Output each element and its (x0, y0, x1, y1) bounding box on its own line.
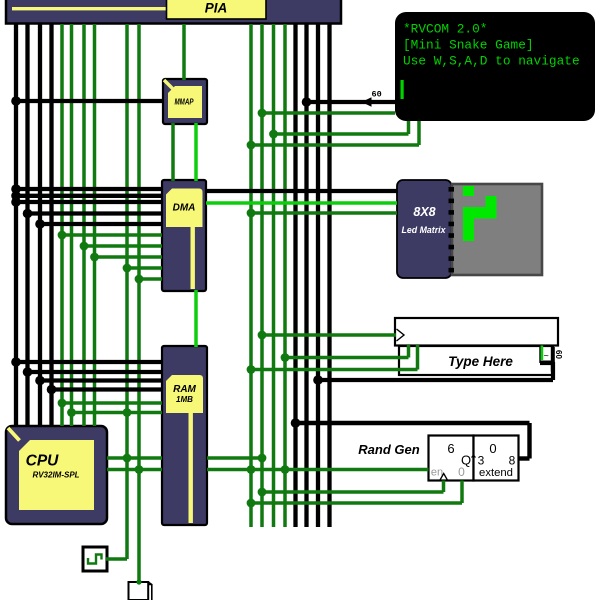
svg-text:DMA: DMA (173, 203, 196, 214)
svg-text:0: 0 (458, 465, 465, 479)
wire terminal wr horizontal (262, 111, 395, 115)
wire DMA in1 horizontal (16, 194, 162, 198)
junction DMA ctl3 (123, 264, 132, 273)
svg-text:8: 8 (509, 454, 516, 468)
wire terminal pin1 riser (407, 121, 411, 134)
svg-text:6: 6 (447, 441, 454, 456)
LED matrix lit cell snake body 3 (463, 219, 474, 242)
CPU U5 body (6, 426, 107, 524)
junction keyboard pin1 (281, 353, 290, 362)
wire keyboard pin1 riser (407, 345, 411, 358)
clock CLK1 waveform (88, 555, 102, 564)
junction keyboard clock (258, 331, 267, 340)
junction DMA in3 (23, 209, 33, 219)
wire MMAP to DMA left vertical (171, 123, 175, 181)
wire mid D1 vertical (304, 24, 308, 527)
svg-text:RV32IM-SPL: RV32IM-SPL (32, 471, 79, 480)
junction randgen reset (247, 499, 256, 508)
wire clk net vertical (125, 24, 129, 559)
terminal cursor (401, 80, 404, 99)
keyboard K2 strobe bar vertical (551, 347, 555, 372)
junction row1 end (258, 454, 267, 463)
keyboard K2 buffer box (399, 346, 553, 375)
wire DMA ctl1 horizontal (84, 244, 162, 248)
random generator clock triangle (440, 474, 447, 481)
keyboard K2 strobe bar horizontal (540, 361, 555, 366)
junction DMA ctl4 (135, 275, 144, 284)
wire RAM in1 horizontal (28, 370, 163, 374)
junction CPU-RAM row1 (123, 454, 132, 463)
junction row2 b (281, 465, 290, 474)
junction DMA in2 (11, 197, 21, 207)
junction DMA in1 (11, 191, 21, 201)
wire DMA ctl4 horizontal (139, 277, 162, 281)
svg-text:Led Matrix: Led Matrix (402, 225, 447, 235)
wire terminal pin1 horizontal (274, 132, 409, 136)
LED matrix driver right pins (449, 187, 455, 272)
wire node MMAP-in horizontal (16, 99, 163, 103)
LED matrix panel (452, 184, 542, 275)
PIA U1 body (6, 0, 341, 24)
button B1 face (129, 582, 149, 600)
wire mid C3 vertical (283, 24, 287, 527)
junction RAM ctl0 (58, 399, 67, 408)
wire randgen out horizontal (296, 421, 530, 425)
wire randgen reset riser (460, 481, 464, 504)
wire keyboard pin2 horizontal (251, 368, 418, 372)
junction DMA ctl1 (80, 242, 89, 251)
wire RAM in0 horizontal (16, 360, 162, 364)
svg-text:1MB: 1MB (176, 395, 193, 404)
MMAP U2 body (163, 79, 207, 124)
LED matrix lit cell snake head (463, 186, 474, 196)
wire DMA ctl0 horizontal (62, 233, 162, 237)
CPU U5 corner fold (8, 428, 20, 441)
wire ctl B2 vertical (82, 24, 86, 426)
RAM U4 yellow box (166, 375, 203, 413)
wire MMAP to DMA right vertical (194, 123, 198, 181)
LED matrix driver U6 body (397, 180, 452, 278)
DMA U3 body (162, 180, 206, 291)
wire DMA in2 horizontal (16, 200, 162, 204)
LED matrix lit cell snake body 1 (486, 196, 497, 219)
wire keyboard pin2 riser (416, 345, 420, 370)
tunnel arrow 60 (362, 97, 372, 107)
wire CPU-RAM row1 left horizontal (107, 456, 162, 460)
wire RAM ctl1 horizontal (72, 411, 163, 415)
wire extender out horizontal (519, 456, 530, 460)
svg-text:*RVCOM 2.0*: *RVCOM 2.0* (403, 22, 487, 37)
svg-text:60: 60 (372, 90, 382, 100)
wire mid C2 vertical (272, 24, 276, 527)
wire reset net vertical (137, 24, 141, 581)
bit extender width arrow (472, 455, 476, 462)
junction RAM ctl1b (123, 408, 132, 417)
wire CPU-RAM row2 left horizontal (107, 468, 162, 472)
wire keyboard data horizontal (318, 378, 553, 382)
keyboard K2 compartment divider (539, 346, 541, 363)
svg-text:~: ~ (544, 351, 549, 361)
junction DMA in4 (35, 219, 45, 229)
PIA U1 yellow label strip (12, 7, 167, 10)
junction DMA ctl2 (90, 253, 99, 262)
bit extender X1 box (474, 436, 519, 481)
wire randgen out vertical (527, 423, 531, 459)
PIA U1 yellow label box (167, 0, 267, 19)
DMA U3 yellow box (166, 189, 203, 228)
CPU U5 yellow box (19, 440, 94, 510)
wire keyboard pin1 horizontal (285, 356, 409, 360)
junction RAM in3 (47, 385, 57, 395)
wire RAM in2 horizontal (40, 378, 162, 382)
junction RAM in0 (11, 357, 21, 367)
wire terminal pin2 riser (417, 121, 421, 145)
wire clock out horizontal (106, 557, 127, 561)
svg-text:Type Here: Type Here (448, 354, 513, 369)
wire CPU-RAM row1 right horizontal (207, 456, 262, 460)
junction terminal pin2 (247, 141, 256, 150)
keyboard K1 buffer box (395, 318, 558, 346)
junction randgen clock (258, 488, 267, 497)
junction CPU-RAM row2 (135, 465, 144, 474)
svg-text:3: 3 (478, 454, 485, 468)
svg-text:60: 60 (554, 350, 563, 359)
junction terminal wr (258, 109, 267, 118)
svg-text:MMAP: MMAP (175, 98, 195, 107)
RAM U4 body (162, 346, 207, 525)
wire bus A0 vertical (14, 24, 18, 426)
wire DMA to RAM vertical (194, 290, 198, 347)
junction matrix row (247, 209, 256, 218)
wire DMA to matrix data horizontal (206, 189, 397, 193)
svg-text:PIA: PIA (205, 1, 228, 16)
button B1 body (148, 582, 152, 600)
svg-text:0: 0 (489, 441, 496, 456)
wire DMA in0 horizontal (16, 187, 162, 191)
svg-text:RAM: RAM (173, 384, 196, 395)
junction DMA in0 (11, 184, 21, 194)
svg-text:CPU: CPU (26, 453, 60, 470)
junction terminal data (302, 97, 312, 107)
junction randgen out (291, 418, 301, 428)
MMAP U2 yellow box (168, 86, 202, 118)
wire mid C1 vertical (260, 24, 264, 527)
wire mid C0 vertical (249, 24, 253, 527)
junction keyboard data (313, 375, 323, 385)
wire randgen clock riser (442, 481, 446, 493)
DMA U3 yellow stripe (191, 227, 195, 289)
wire terminal data horizontal (307, 100, 396, 104)
random generator R1 box (429, 436, 474, 481)
RAM U4 yellow stripe (189, 413, 193, 523)
wire ctl B1 vertical (70, 24, 74, 426)
junction DMA ctl0 (58, 231, 67, 240)
junction terminal pin1 (269, 130, 278, 139)
junction row2 a (247, 465, 256, 474)
junction node MMAP-in (11, 96, 21, 106)
wire PIA to MMAP vertical (182, 24, 186, 80)
wire DMA in4 horizontal (40, 222, 162, 226)
keyboard K1 clock triangle (397, 329, 405, 341)
junction RAM in1 (23, 367, 33, 377)
wire mid D2 vertical (316, 24, 320, 527)
junction RAM ctl1a (67, 408, 76, 417)
wire keyboard clock horizontal (262, 333, 396, 337)
wire bus A3 vertical (49, 24, 53, 426)
wire mid D3 vertical (327, 24, 331, 527)
svg-text:8X8: 8X8 (413, 205, 435, 219)
wire DMA ctl3 horizontal (127, 266, 162, 270)
node button pin (136, 579, 141, 584)
svg-text:Use W,S,A,D to navigate: Use W,S,A,D to navigate (403, 54, 580, 69)
wire RAM in3 horizontal (52, 387, 163, 391)
wire ctl B3 vertical (93, 24, 97, 426)
wire RAM ctl0 horizontal (62, 401, 162, 405)
wire randgen reset horizontal (251, 501, 462, 505)
wire terminal pin2 horizontal (251, 143, 419, 147)
junction RAM in2 (35, 376, 45, 386)
svg-text:[Mini Snake Game]: [Mini Snake Game] (403, 38, 534, 53)
svg-text:extend: extend (479, 467, 513, 479)
wire matrix row horizontal (251, 211, 397, 215)
wire DMA in3 horizontal (28, 211, 163, 215)
MMAP U2 corner fold (164, 80, 174, 90)
LED matrix lit cell snake body 2 (463, 207, 486, 219)
wire bus A2 vertical (38, 24, 42, 426)
wire ctl B0 vertical (60, 24, 64, 426)
wire CPU-RAM row2 right horizontal (207, 468, 429, 472)
wire bus A1 vertical (25, 24, 29, 426)
wire randgen clock horizontal (262, 490, 444, 494)
wire mid D0 vertical (293, 24, 297, 527)
clock CLK1 body (83, 547, 107, 571)
terminal TTY body (395, 12, 595, 121)
junction keyboard pin2 (247, 365, 256, 374)
wire DMA ctl2 horizontal (95, 255, 163, 259)
svg-text:Rand Gen: Rand Gen (358, 442, 419, 457)
wire keyboard data riser (551, 362, 555, 380)
wire DMA to matrix strobe horizontal (206, 201, 397, 205)
keyboard K2 buffer tick (541, 346, 544, 361)
